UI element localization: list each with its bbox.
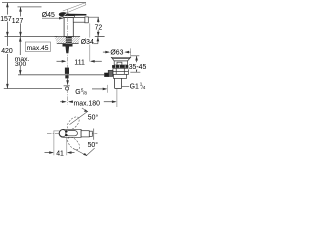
top view escutcheon circle	[59, 130, 66, 137]
deck top extension right	[95, 36, 105, 38]
waste body	[113, 68, 128, 78]
mounting nut below deck	[63, 44, 73, 47]
top view spout tip tick	[93, 129, 95, 140]
dimension max.180	[60, 100, 116, 103]
text 157	[0, 15, 11, 22]
50 deg upper leader (angle V)	[70, 108, 89, 125]
svg-text:/8: /8	[83, 90, 87, 95]
wire horizontal supply line	[18, 74, 104, 76]
svg-text:/4: /4	[142, 85, 146, 90]
label G1 1/4 with leader	[122, 85, 129, 87]
svg-text:max.180: max.180	[74, 101, 101, 108]
faucet raised lever (thin outline)	[63, 3, 86, 13]
extension line for G5/8 arrow	[107, 85, 109, 93]
top view slot	[66, 131, 78, 136]
dimension 72	[89, 16, 99, 18]
dimension 127	[19, 7, 22, 37]
faucet centerline	[67, 10, 69, 105]
wire top reference line y=2.5	[2, 2, 86, 4]
svg-text:127: 127	[12, 18, 24, 25]
label G5/8 with leader arrow	[64, 79, 70, 86]
svg-text:50°: 50°	[88, 114, 99, 122]
top view dashed lobe lower	[65, 135, 81, 152]
dimension max.300	[19, 37, 22, 75]
svg-text:41: 41	[56, 150, 64, 157]
faucet collar	[63, 16, 74, 18]
svg-text:G: G	[75, 89, 80, 96]
extension line from spout tip x=89.8	[89, 23, 91, 37]
svg-text:300: 300	[15, 61, 26, 68]
waste locknut (dark)	[112, 65, 129, 68]
50 deg lower leader (angle V)	[73, 148, 94, 156]
svg-text:Ø63: Ø63	[110, 50, 123, 57]
wire second reference line y=6.9	[18, 6, 42, 8]
threaded shank through deck	[66, 37, 72, 44]
svg-text:max.45: max.45	[27, 45, 49, 52]
svg-text:Ø34: Ø34	[81, 39, 94, 46]
pop-up waste flange	[111, 57, 130, 65]
waste side port	[108, 70, 113, 76]
top view dashed lobe upper	[65, 115, 81, 132]
top view aerator cap	[89, 131, 92, 136]
deck (hatched)	[55, 37, 81, 44]
faucet lever handle (dark)	[59, 12, 87, 17]
dimension Ø63	[103, 51, 131, 54]
dimension 35-45	[131, 55, 139, 57]
supply hose bundle	[66, 47, 70, 54]
svg-text:111: 111	[74, 59, 85, 66]
svg-text:157: 157	[0, 16, 12, 23]
dimension 157 / 420 shared line	[6, 3, 9, 89]
top view body capsule	[59, 129, 81, 137]
faucet body	[64, 18, 73, 37]
wire bottom reference line y=88.6	[4, 88, 62, 90]
Ø63 right extension line	[130, 48, 132, 57]
waste tailpipe	[115, 78, 122, 88]
dimension 111	[57, 60, 102, 63]
deck top extension left	[5, 36, 58, 38]
text 420	[1, 46, 13, 54]
svg-text:35-45: 35-45	[129, 64, 147, 71]
top view supply holes (dark)	[65, 130, 68, 133]
top view spout stub	[81, 131, 89, 137]
supply hose nipple	[65, 68, 69, 74]
top view centerline	[47, 132, 97, 134]
faucet spout	[73, 17, 85, 22]
dimension 41	[54, 130, 60, 132]
label Ø34 with leader	[81, 38, 94, 45]
faucet aerator cap	[85, 17, 88, 23]
svg-text:420: 420	[1, 48, 13, 55]
label max.45 box	[25, 42, 50, 51]
svg-text:50°: 50°	[88, 141, 99, 149]
svg-text:72: 72	[95, 24, 103, 31]
waste lower band	[114, 74, 127, 78]
svg-text:G1: G1	[130, 84, 139, 91]
waste centerline below pipe	[116, 88, 118, 107]
waste neck section	[114, 61, 127, 65]
waste connection nut	[104, 73, 109, 77]
